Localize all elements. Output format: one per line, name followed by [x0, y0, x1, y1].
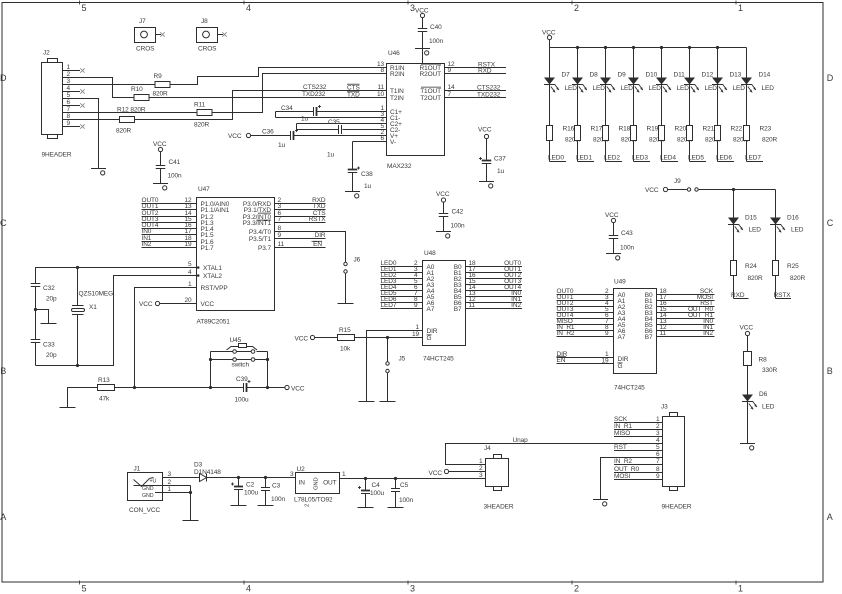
svg-text:11: 11	[278, 241, 285, 248]
ground for C41	[153, 184, 168, 190]
buffer U49 74HCT245	[601, 279, 667, 392]
svg-text:VCC: VCC	[478, 126, 492, 133]
pin number J3 pin 4	[656, 437, 660, 444]
capacitor C37	[479, 139, 506, 182]
svg-text:9: 9	[66, 120, 70, 127]
wire R12 to U46 pin11 (CTS232)	[135, 91, 387, 120]
svg-text:10k: 10k	[340, 346, 351, 353]
svg-text:LED0: LED0	[548, 154, 564, 161]
svg-text:IN_R1: IN_R1	[614, 423, 632, 430]
svg-text:G: G	[618, 363, 623, 370]
svg-text:R10: R10	[131, 86, 143, 93]
svg-text:820R: 820R	[116, 128, 132, 135]
svg-text:4: 4	[656, 437, 660, 444]
resistor R25	[773, 261, 806, 283]
ground at J2 pin5	[91, 169, 106, 175]
wire+net label RSTX at U47 right	[275, 216, 327, 223]
svg-text:LED4: LED4	[660, 154, 676, 161]
wire+net label RST at J3 pin 5	[614, 444, 663, 451]
svg-text:A7: A7	[427, 306, 435, 313]
svg-text:R18: R18	[619, 126, 631, 133]
wire junction to J5	[387, 338, 389, 362]
wire+net label LED0 stub	[548, 140, 566, 161]
svg-text:MAX232: MAX232	[387, 163, 412, 170]
capacitor C2	[231, 478, 259, 506]
net label RSTX	[478, 61, 496, 68]
svg-text:R23: R23	[760, 126, 772, 133]
svg-text:U49: U49	[614, 279, 626, 286]
wire+net label LED2 at U48 pin 4	[381, 272, 423, 279]
svg-text:3HEADER: 3HEADER	[484, 504, 514, 511]
VCC for R8	[740, 325, 754, 336]
ground at U48 DIR	[359, 401, 375, 403]
capacitor C35	[297, 119, 387, 158]
svg-text:C3: C3	[272, 483, 281, 490]
svg-text:CTS: CTS	[347, 85, 360, 92]
svg-text:1u: 1u	[497, 168, 505, 175]
wire Unap net J4 to J3	[446, 437, 663, 465]
svg-text:5: 5	[66, 92, 70, 99]
svg-text:EN: EN	[313, 241, 322, 248]
wire+net label OUT3 at U49 pin 5	[557, 306, 614, 313]
svg-text:11: 11	[377, 84, 384, 91]
svg-text:QZS10MEG: QZS10MEG	[79, 291, 114, 298]
svg-text:9HEADER: 9HEADER	[662, 504, 692, 511]
svg-text:3: 3	[656, 430, 660, 437]
svg-text:C43: C43	[621, 230, 633, 237]
wire+net label OUT_R0 at U49 pin 15	[657, 306, 715, 313]
wire R10 to U46 pin10 (TXD232)	[149, 97, 387, 99]
svg-text:1: 1	[188, 281, 192, 288]
svg-text:RST/VPP: RST/VPP	[201, 285, 228, 292]
svg-text:CON_VCC: CON_VCC	[129, 507, 160, 514]
wire+net label OUT3 at U47 pin 15	[142, 216, 197, 223]
svg-text:1: 1	[738, 584, 743, 594]
wire+net label LED0 at U48 pin 2	[381, 260, 423, 267]
svg-text:T1IN: T1IN	[390, 88, 404, 95]
net label CTS232	[303, 84, 327, 91]
wire+net label OUT4 at U49 pin 6	[557, 312, 614, 319]
wire+net label TXD at U47 right	[275, 203, 326, 210]
buffer U48 74HCT245	[414, 250, 476, 363]
svg-text:CTS232: CTS232	[477, 84, 501, 91]
svg-text:G: G	[427, 335, 432, 342]
svg-text:1: 1	[66, 64, 70, 71]
svg-text:47k: 47k	[99, 396, 110, 403]
capacitor C42	[439, 202, 465, 231]
jumper J9	[645, 178, 698, 194]
junction crystal bottom	[76, 364, 79, 367]
wire J2 pin1 stub (NC)	[63, 68, 85, 72]
wire+net label LED1 stub	[576, 140, 594, 161]
wire+net label IN_R1 at U49 pin 8	[557, 324, 614, 331]
svg-text:GND: GND	[142, 486, 154, 492]
pushbutton U45 switch	[209, 337, 269, 388]
pin number J3 pin 6	[656, 451, 660, 458]
svg-text:LED5: LED5	[688, 154, 704, 161]
ground for C42	[436, 232, 451, 238]
svg-text:R25: R25	[787, 263, 799, 270]
svg-text:1: 1	[738, 3, 743, 13]
svg-text:D6: D6	[759, 391, 768, 398]
svg-text:LED: LED	[621, 85, 634, 92]
wire+net label IN0 at U49 pin 13	[657, 318, 715, 325]
svg-text:D: D	[827, 73, 834, 83]
svg-text:MOSI: MOSI	[614, 473, 631, 480]
VCC for C42	[436, 191, 450, 202]
svg-text:TXD: TXD	[313, 203, 326, 210]
svg-text:GND: GND	[142, 493, 154, 499]
wire J2 pin2 to R10	[63, 78, 135, 98]
svg-text:MISO: MISO	[614, 430, 630, 437]
svg-text:D15: D15	[745, 215, 757, 222]
svg-text:IN2: IN2	[142, 241, 152, 248]
svg-text:R24: R24	[745, 263, 757, 270]
wire+net label RXD under R24	[731, 276, 749, 300]
wire+net label DIR at U49 pin1	[557, 351, 614, 358]
svg-text:100n: 100n	[168, 173, 183, 180]
svg-text:D7: D7	[562, 72, 571, 79]
wire+net label OUT0 at U48 pin 18	[466, 260, 523, 267]
wire+net label IN2 at U49 pin 11	[657, 330, 715, 337]
svg-text:4: 4	[188, 269, 192, 276]
connector J4 3HEADER	[479, 445, 514, 511]
VCC for C43	[605, 212, 619, 223]
wire+net label SCK at J3 pin 1	[614, 416, 663, 423]
wire+net label CTS at U47 right	[275, 210, 327, 217]
svg-text:+U: +U	[150, 479, 157, 485]
svg-text:1: 1	[342, 471, 346, 478]
capacitor C43	[609, 223, 635, 254]
svg-text:R13: R13	[98, 377, 110, 384]
wire+net label RXD at U47 right	[275, 197, 326, 204]
wire+net label LED5 at U48 pin 7	[381, 290, 423, 297]
svg-text:VCC: VCC	[429, 470, 443, 477]
wire J1 pins 1,2 to ground	[163, 486, 193, 521]
pin number J3 pin 8	[656, 466, 660, 473]
svg-text:20p: 20p	[46, 296, 57, 303]
svg-text:A: A	[827, 512, 833, 522]
svg-text:RXD: RXD	[478, 67, 492, 74]
svg-text:DIR: DIR	[427, 328, 438, 335]
VCC right of C39	[285, 385, 305, 392]
ground at C3	[258, 505, 274, 507]
svg-text:8: 8	[66, 113, 70, 120]
wire+net label OUT2 at U49 pin 4	[557, 300, 614, 307]
wire J9 to LED D15/D16	[699, 188, 776, 218]
svg-text:VCC: VCC	[153, 141, 167, 148]
svg-text:2: 2	[656, 423, 660, 430]
svg-text:1u: 1u	[364, 183, 372, 190]
wire+net label OUT_R0 at J3 pin 8	[614, 466, 663, 473]
svg-text:4: 4	[246, 3, 251, 13]
svg-text:VCC: VCC	[295, 335, 309, 342]
net label TXD (overline)	[347, 91, 360, 99]
LED D6	[742, 366, 775, 444]
svg-text:J8: J8	[201, 18, 208, 25]
ground for C38	[345, 192, 360, 198]
ground for C37	[479, 182, 494, 188]
svg-text:VCC: VCC	[645, 187, 659, 194]
wire+net label LED6 at U48 pin 8	[381, 296, 423, 303]
wire+net label IN0 at U47 pin 17	[142, 228, 197, 235]
svg-text:P1.1/AIN1: P1.1/AIN1	[201, 207, 230, 214]
wire+net label LED2 stub	[604, 140, 622, 161]
wire+net label IN0 at U48 pin 13	[466, 290, 523, 297]
svg-text:P3.3/INT1: P3.3/INT1	[243, 220, 272, 227]
svg-text:R19: R19	[647, 126, 659, 133]
svg-text:U2: U2	[297, 466, 306, 473]
svg-text:4: 4	[246, 584, 251, 594]
svg-text:74HCT245: 74HCT245	[423, 356, 454, 363]
wire LED supply bus	[550, 40, 747, 50]
wire XTAL1 net	[36, 268, 197, 284]
resistor R8	[744, 336, 778, 374]
svg-text:3: 3	[167, 471, 171, 478]
VCC for C41	[153, 141, 167, 152]
svg-text:D9: D9	[618, 72, 627, 79]
pin number J3 pin 2	[656, 423, 660, 430]
svg-text:1u: 1u	[327, 152, 335, 159]
svg-text:14: 14	[448, 84, 456, 91]
svg-text:3: 3	[410, 584, 415, 594]
ground at J5	[380, 401, 396, 403]
svg-text:GND: GND	[314, 477, 320, 490]
svg-text:100u: 100u	[370, 490, 385, 497]
wire+net label IN_R2 at U49 pin 9	[557, 330, 614, 337]
svg-text:5: 5	[82, 584, 87, 594]
svg-text:820R: 820R	[194, 122, 210, 129]
svg-text:LED: LED	[762, 85, 775, 92]
svg-text:X1: X1	[89, 304, 97, 311]
svg-text:V-: V-	[390, 139, 396, 146]
svg-text:100u: 100u	[244, 490, 259, 497]
svg-text:CROS: CROS	[136, 46, 155, 53]
svg-text:D14: D14	[759, 72, 771, 79]
wire+net label IN2 at U48 pin 11	[466, 302, 523, 309]
VCC for R15	[295, 335, 315, 342]
svg-text:VCC: VCC	[228, 133, 242, 140]
ground at R13	[60, 407, 76, 409]
wire U46 pin14 CTS232 stub	[445, 90, 507, 92]
svg-text:2: 2	[66, 71, 70, 78]
wire+net label LED3 at U48 pin 5	[381, 278, 423, 285]
svg-text:P1.7: P1.7	[201, 245, 214, 252]
svg-text:P1.5: P1.5	[201, 232, 214, 239]
svg-text:1u: 1u	[278, 142, 286, 149]
wire D3 to U2 IN	[207, 476, 296, 479]
diode D3 D1N4148	[194, 462, 221, 482]
resistor R21	[687, 85, 721, 144]
regulator U2 L78L05	[290, 466, 346, 507]
svg-text:100u: 100u	[235, 397, 250, 404]
VCC at J4 pin2	[429, 469, 486, 476]
svg-text:6: 6	[656, 451, 660, 458]
svg-text:8: 8	[278, 225, 282, 232]
wire J2 pin8 to R12	[63, 119, 120, 121]
svg-text:U45: U45	[230, 337, 242, 344]
pin number J3 pin 7	[656, 458, 660, 465]
LED D7	[544, 48, 577, 93]
capacitor C41	[156, 152, 182, 184]
pin number J3 pin 1	[656, 416, 660, 423]
capacitor C36	[251, 129, 387, 149]
wire U46 pin7 TXD232 stub	[445, 97, 507, 99]
ground at C4	[358, 507, 374, 509]
svg-text:D12: D12	[702, 72, 714, 79]
resistor R24	[731, 261, 764, 283]
svg-text:D11: D11	[674, 72, 686, 79]
svg-text:R11: R11	[194, 102, 206, 109]
wire+net label OUT4 at U47 pin 16	[142, 222, 197, 229]
svg-text:2: 2	[574, 584, 579, 594]
svg-text:VCC: VCC	[201, 301, 215, 308]
wire+net label IN1 at U49 pin 12	[657, 324, 715, 331]
svg-text:1: 1	[656, 416, 660, 423]
svg-text:VCC: VCC	[291, 385, 305, 392]
svg-text:P3.4/T0: P3.4/T0	[249, 229, 272, 236]
svg-text:R15: R15	[339, 327, 351, 334]
wire+net label LED7 at U48 pin 9	[381, 302, 423, 309]
svg-text:6: 6	[66, 99, 70, 106]
wire R13 left to ground	[68, 388, 98, 408]
svg-text:D3: D3	[194, 462, 203, 469]
svg-text:LED3: LED3	[632, 154, 648, 161]
svg-text:LED7: LED7	[381, 302, 397, 309]
ground at J1	[183, 520, 199, 522]
svg-text:8: 8	[656, 466, 660, 473]
resistor R10	[131, 86, 168, 101]
wire+net label LED1 at U48 pin 3	[381, 266, 423, 273]
resistor R12	[116, 107, 146, 135]
svg-text:4: 4	[66, 85, 70, 92]
wire+net label IN1 at U48 pin 12	[466, 296, 523, 303]
svg-text:B: B	[0, 366, 6, 376]
wire J2 pin6 stub (NC)	[63, 103, 85, 107]
ground at D6	[740, 444, 755, 451]
svg-text:VCC: VCC	[740, 325, 754, 332]
svg-text:IN_R2: IN_R2	[614, 458, 632, 465]
svg-text:1: 1	[167, 486, 171, 493]
wire+net label RSTX under R25	[774, 276, 792, 300]
capacitor C39	[235, 376, 251, 404]
VCC for C36	[228, 133, 251, 140]
wire+net label IN2 at U47 pin 19	[142, 241, 197, 248]
wire+net label OUT2 at U48 pin 16	[466, 272, 523, 279]
svg-text:19: 19	[412, 331, 420, 338]
LED D11	[656, 48, 689, 93]
svg-text:2: 2	[305, 504, 311, 507]
svg-text:LED: LED	[733, 85, 746, 92]
ground between C32 and C33	[41, 323, 57, 325]
resistor R20	[659, 85, 693, 144]
wire RST net down to R13 row	[135, 288, 197, 388]
svg-text:D16: D16	[787, 215, 799, 222]
wire ground tap	[36, 310, 49, 324]
svg-text:IN2: IN2	[703, 330, 713, 337]
ground shared C40 / U46 top	[415, 49, 430, 56]
wire+net label OUT3 at U48 pin 15	[466, 278, 523, 285]
wire J2 pin3 to R9	[63, 84, 156, 86]
resistor R13	[98, 377, 115, 403]
wire U2 OUT to J4 pin3	[340, 477, 486, 480]
wire+net label LED5 stub	[688, 140, 706, 161]
svg-text:LED: LED	[762, 404, 775, 411]
resistor R22	[715, 85, 749, 144]
LED D16	[770, 215, 804, 261]
svg-text:TXD232: TXD232	[477, 91, 501, 98]
resistor R18	[603, 85, 637, 144]
resistor R19	[631, 85, 665, 144]
LED D14	[741, 48, 774, 93]
resistor R23	[744, 85, 778, 144]
svg-text:OUT: OUT	[323, 480, 337, 487]
capacitor C3	[261, 478, 286, 506]
wire+net label EN at U47 P3.7	[275, 241, 326, 248]
VCC for LED array	[542, 30, 556, 40]
svg-text:820R: 820R	[153, 91, 169, 98]
wire U48 DIR pin1 to ground	[367, 324, 423, 402]
capacitor C4	[358, 479, 385, 508]
wire+net label DIR at U47 P3.5	[275, 232, 326, 239]
svg-text:J6: J6	[354, 256, 361, 263]
wire+net label MISO at J3 pin 3	[614, 430, 663, 437]
wire+net label OUT_R1 at U49 pin 14	[657, 312, 715, 319]
svg-text:D10: D10	[646, 72, 658, 79]
svg-text:C37: C37	[494, 156, 506, 163]
wire J1 pin3 to D3	[163, 477, 200, 479]
svg-text:1: 1	[415, 324, 419, 331]
wire+net label OUT1 at U47 pin 13	[142, 203, 197, 210]
wire+net label SCK at U49 pin 18	[657, 288, 715, 295]
svg-text:LED: LED	[677, 85, 690, 92]
LED D13	[712, 48, 745, 93]
svg-text:LED: LED	[749, 227, 762, 234]
svg-text:7: 7	[66, 106, 70, 113]
wire R9 to U46 pin13	[170, 68, 387, 85]
jumper J6	[344, 256, 361, 273]
LED D12	[684, 48, 717, 93]
svg-text:820R: 820R	[790, 275, 806, 282]
svg-text:LED: LED	[593, 85, 606, 92]
svg-text:Unap: Unap	[513, 437, 529, 444]
svg-text:74HCT245: 74HCT245	[614, 385, 645, 392]
svg-text:20p: 20p	[46, 352, 57, 359]
svg-text:C41: C41	[169, 159, 181, 166]
resistor R17	[575, 85, 609, 144]
svg-text:P3.7: P3.7	[258, 245, 271, 252]
ground for C43	[606, 254, 621, 261]
svg-text:2: 2	[479, 465, 483, 472]
svg-text:TXD: TXD	[347, 92, 360, 99]
connector J3 9HEADER	[661, 404, 692, 511]
connector J2 9HEADER	[42, 50, 72, 159]
svg-text:C39: C39	[236, 376, 248, 383]
wire J2 pin5 to ground	[63, 99, 99, 169]
svg-text:B: B	[827, 366, 833, 376]
junction C32-C33 ground tap	[34, 308, 37, 311]
svg-text:R16: R16	[563, 126, 575, 133]
svg-text:CROS: CROS	[198, 46, 217, 53]
svg-text:C42: C42	[452, 209, 464, 216]
VCC for C40	[415, 7, 429, 17]
jumper J7	[135, 18, 165, 53]
wire J2 pin7 to R11	[63, 112, 197, 114]
svg-text:J2: J2	[43, 50, 50, 57]
svg-text:C34: C34	[281, 105, 293, 112]
svg-text:B7: B7	[454, 306, 462, 313]
svg-text:3: 3	[479, 472, 483, 479]
